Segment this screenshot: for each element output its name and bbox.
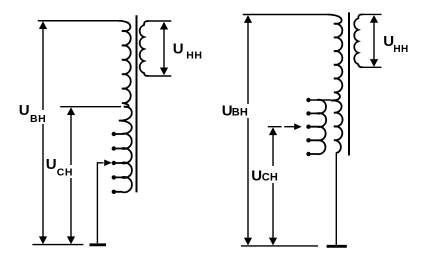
wire: lead from winding to tap coil (right diagram)	[309, 99, 332, 101]
wire: LV bottom lead (right diagram)	[361, 66, 382, 68]
arrow Ubh measurement (right diagram)	[247, 20, 249, 239]
tap dot 5 winding end (right diagram)	[306, 152, 310, 156]
core (right diagram)	[348, 12, 350, 155]
tap dot 3 (right diagram)	[306, 125, 310, 129]
tap dot 3 (left diagram)	[112, 161, 116, 165]
wire: LV top lead (left diagram)	[147, 20, 171, 22]
winding W4 reversing tap coil (right diagram)	[309, 100, 327, 154]
wire: LV top lead (right diagram)	[361, 13, 382, 15]
svg-text:U: U	[251, 168, 262, 185]
arrow Uch measurement (right diagram)	[272, 132, 274, 239]
winding W1 tapped regulating section (left diagram)	[114, 107, 132, 193]
winding W2 LV secondary (left diagram)	[140, 21, 149, 76]
terminal bar (left diagram)	[90, 243, 107, 246]
svg-text:U: U	[19, 102, 30, 119]
wire: selector line to tap (right diagram)	[268, 126, 295, 128]
tap selector arrowhead (right diagram)	[294, 123, 302, 130]
tap dot 1 (right diagram)	[306, 98, 310, 102]
svg-text:U: U	[173, 41, 184, 58]
svg-text:ВН: ВН	[30, 113, 46, 125]
tap dot 4 (left diagram)	[112, 175, 116, 179]
terminal bar (right diagram)	[327, 245, 347, 248]
wire: HV winding bottom conductor (right diagram)	[335, 153, 337, 246]
svg-text:СН: СН	[57, 167, 73, 179]
wire: top lead of HV winding (right diagram)	[243, 14, 328, 16]
tap dot 2 (left diagram)	[112, 146, 116, 150]
svg-text:НН: НН	[186, 50, 202, 62]
tap dot 1 (left diagram)	[112, 132, 116, 136]
core (left diagram)	[136, 15, 138, 192]
tap dot 4 (right diagram)	[306, 138, 310, 142]
svg-text:ВН: ВН	[232, 107, 249, 119]
tap dot 5 winding end (left diagram)	[112, 190, 116, 194]
svg-text:U: U	[46, 156, 57, 173]
winding W1 HV upper section (left diagram)	[118, 21, 131, 107]
wire: top lead of HV winding (left diagram)	[38, 20, 118, 22]
svg-text:НН: НН	[393, 44, 408, 55]
winding W3 HV lower section (right diagram)	[331, 100, 343, 152]
winding W5 LV secondary (right diagram)	[354, 14, 362, 67]
arrow Uhh measurement (right diagram)	[373, 20, 375, 62]
wire: baseline under arrows (left diagram)	[32, 244, 83, 246]
winding W3 HV upper section (right diagram)	[328, 15, 343, 101]
wire: baseline under arrows (right diagram)	[241, 245, 318, 247]
tap selector arrow (left diagram)	[97, 163, 103, 244]
svg-text:СН: СН	[262, 172, 279, 184]
wire: LV bottom lead (left diagram)	[147, 75, 171, 77]
wire: MV tap lead (left diagram)	[60, 106, 121, 108]
arrow Uch measurement (left diagram)	[70, 112, 72, 238]
arrow Ubh measurement (left diagram)	[42, 26, 44, 238]
tap dot 2 (right diagram)	[306, 111, 310, 115]
arrow Uhh measurement (left diagram)	[163, 27, 165, 70]
